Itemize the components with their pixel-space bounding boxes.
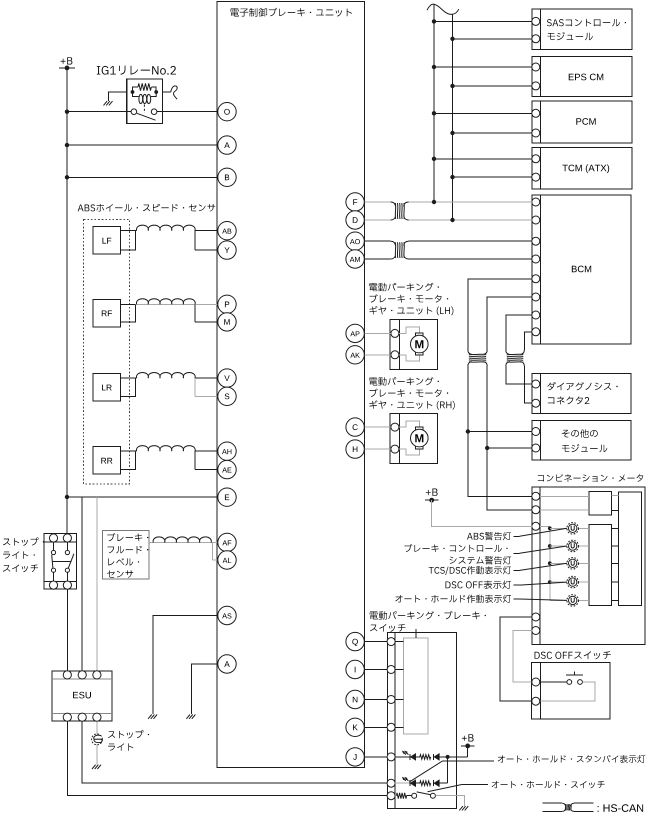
wire RR sensor coil to terminal	[136, 450, 137, 452]
terminal J	[346, 748, 364, 766]
wire stop light switch to ESU	[66, 589, 68, 671]
lamp indicator 2	[567, 540, 579, 552]
node CAN-H tap SAS	[432, 19, 436, 23]
motor gear unit box EPB motor LH	[390, 320, 438, 370]
ground relay coil	[104, 101, 113, 105]
LED auto-hold standby indicator	[403, 751, 416, 760]
motor M EPB motor RH	[411, 427, 429, 449]
wire BCM pin8 down-bus B2	[524, 332, 532, 350]
terminal Q	[346, 632, 364, 650]
terminal AK	[346, 346, 364, 364]
wire +B to meter lamp feed	[432, 500, 532, 526]
resistor R3 auto-hold switch row	[396, 793, 406, 799]
module combination meter box	[532, 487, 645, 645]
ground A	[186, 715, 195, 719]
legend HS-CAN twisted pair symbol	[543, 803, 644, 812]
wire fluid sensor to terminal AF	[149, 542, 218, 544]
terminal AB	[218, 222, 236, 240]
wire J row to switch LED row	[447, 757, 449, 783]
label コンビネーション・メータ	[538, 474, 643, 482]
wire lamp row 3	[550, 562, 619, 564]
label EPB motor RH	[369, 377, 455, 410]
label callout DSC OFF表示灯	[445, 580, 566, 589]
wire relay coil to ground	[109, 92, 127, 101]
wire CAN-H to TCM	[434, 158, 532, 160]
switch push contact DSC OFF	[566, 671, 583, 684]
terminal A	[218, 655, 236, 673]
wire lamp row 1	[550, 527, 619, 529]
terminal N	[346, 690, 364, 708]
wire terminal D CAN-L to BCM	[364, 219, 532, 221]
label EPB motor LH	[369, 283, 453, 316]
twisted pair symbol F/D	[391, 202, 409, 220]
wire resistor to contact	[407, 795, 412, 797]
lamp indicator 5	[567, 595, 579, 607]
node junction dot CAN-H at trunk	[432, 200, 436, 204]
wire branch to ESU pin2	[81, 497, 83, 671]
EPB switch actuator lever	[415, 629, 417, 638]
wire lower return to terminal	[195, 451, 218, 469]
lamp indicator 4	[567, 576, 579, 588]
diode D2 row2	[434, 780, 440, 786]
twisted pair symbol bus B	[506, 350, 525, 366]
terminal AL	[218, 551, 236, 569]
wire ESU to auto-hold switch row2	[82, 721, 387, 783]
label 電動パーキング・ブレーキ・スイッチ	[370, 611, 486, 632]
terminal D	[346, 211, 364, 229]
wire terminal to EPB motor LH pin1	[364, 332, 391, 334]
label オート・ホールド・スイッチ callout	[428, 781, 605, 792]
wire fluid sensor return to terminal AL	[212, 543, 218, 561]
power +B EPB	[461, 734, 475, 748]
wire +B rail to relay contact	[67, 111, 131, 113]
wire +B rail vertical	[66, 68, 68, 534]
wire relay contact to terminal O	[163, 111, 218, 113]
node junction dot other-module L	[485, 446, 489, 450]
wire stop lamp to ground	[96, 744, 98, 764]
wire terminal to EPB motor RH pin1	[364, 426, 391, 428]
lamp indicator 1	[567, 523, 579, 535]
wire LF sensor coil to terminal	[136, 230, 137, 232]
sensor RF wheel-speed sensor box	[93, 299, 136, 327]
module その他のモジュール other modules	[532, 421, 631, 460]
wire +B to terminal A	[67, 144, 218, 146]
wire CAN-H trunk vertical	[433, 4, 435, 202]
module ESU box	[52, 671, 112, 722]
wire terminal to EPB motor RH pin2	[364, 448, 391, 450]
wire meter CAN-L internal	[540, 509, 589, 511]
inductor LF sensor winding	[136, 225, 195, 231]
switch EPB box 電動パーキング・ブレーキ・スイッチ	[387, 633, 456, 809]
wire row2 internal to LED	[395, 782, 410, 784]
wire EPB motor LH pin1 to motor brush	[399, 327, 419, 334]
LED auto-hold switch illumination	[403, 778, 416, 787]
node junction dot lamp bus row 4	[548, 580, 552, 584]
wire RF sensor coil to terminal	[136, 303, 195, 305]
node CAN-L tap PCM	[450, 131, 454, 135]
terminal S	[218, 387, 236, 405]
meter lamp driver block	[589, 524, 612, 605]
wire LED2 to resistor	[416, 782, 420, 784]
terminal F	[346, 193, 364, 211]
wire EPB motor LH pin2 to motor brush	[399, 355, 419, 361]
lamp indicator 3	[567, 558, 579, 570]
wire terminal to EPB motor LH pin2	[364, 354, 391, 356]
node junction dot lamp bus row 2	[548, 544, 552, 548]
wire terminal I to EPB switch	[364, 669, 403, 671]
wire terminal AM to BCM	[364, 258, 532, 260]
wire relay coil feed pigtail to other circuit	[163, 91, 171, 93]
wire ESU to stop lamp	[96, 721, 98, 734]
label callout ブレーキ・コントロール・	[404, 544, 566, 564]
node CAN-L tap SAS	[450, 37, 454, 41]
terminal AO	[346, 232, 364, 250]
terminal M	[218, 313, 236, 331]
wire meter CAN-H internal	[540, 495, 589, 497]
wire tap to other module pin2	[487, 447, 532, 449]
motor gear unit box EPB motor RH	[390, 414, 438, 464]
label callout TCS/DSC作動表示灯	[429, 563, 567, 575]
wire terminal J to EPB switch	[364, 756, 387, 758]
wire diode to +B junction	[439, 756, 468, 758]
wire EPB motor RH pin1 to motor brush	[399, 421, 419, 427]
wire CAN-L to TCM	[453, 176, 532, 178]
wire meter to DSC switch pin1	[513, 631, 532, 683]
wire terminal A to ground	[191, 664, 217, 714]
wire meter to DSC switch pin2	[500, 617, 532, 701]
wire CAN-H to PCM	[434, 112, 532, 114]
wire BCM pin6 down-bus A2	[487, 297, 532, 350]
op-amp U1 electronic brake control unit box 電子制御ブレーキ・ユニット	[217, 2, 364, 768]
wire bus A2 to meter	[487, 366, 532, 510]
wire CAN-H to EPS	[434, 66, 532, 68]
wire CAN-L to EPS	[453, 85, 532, 87]
terminal B	[218, 168, 236, 186]
wire CAN-L to PCM	[453, 132, 532, 134]
resistor R2 switch LED	[420, 781, 431, 786]
power +B meter	[425, 489, 439, 503]
sensor LF wheel-speed sensor box	[93, 227, 136, 255]
wire lower return to terminal	[195, 304, 218, 322]
wire tap to other module pin1	[468, 431, 532, 433]
terminal I	[346, 660, 364, 678]
wire coil to upper terminal	[195, 303, 218, 305]
wire EPB motor RH pin2 to motor brush	[399, 449, 419, 455]
node junction dot lamp bus row 1	[548, 526, 552, 530]
wire lamp row 4	[550, 581, 619, 583]
wire transceiver to main block 2	[611, 510, 618, 512]
wire CAN-H to SAS	[434, 20, 532, 22]
wire terminal AS to ground	[153, 616, 218, 715]
module EPS CM	[532, 57, 632, 97]
twisted pair symbol AO/AM	[391, 241, 409, 259]
wire +B to terminal B	[67, 176, 218, 178]
label ABSホイール・スピード・センサ	[78, 204, 215, 212]
wire terminal F CAN-H to BCM	[364, 201, 532, 203]
label DSC OFFスイッチ	[535, 651, 611, 659]
resistor R1 standby indicator	[420, 755, 431, 760]
wire +B rail to terminal E	[67, 496, 218, 498]
wire diode2 to junction	[439, 782, 448, 784]
label callout オート・ホールド作動表示灯	[395, 595, 567, 603]
sensor brake fluid level ブレーキ・フルード・レベル・センサ	[102, 530, 149, 579]
wire bus B2 to diagnostic connector pin2	[524, 366, 532, 403]
ground auto-hold switch	[459, 806, 468, 810]
wire terminal N to EPB switch	[364, 699, 403, 701]
label callout ABS警告灯	[467, 528, 567, 540]
node junction dot CAN-L at trunk	[450, 218, 454, 222]
wire lamp feed bus internal	[540, 526, 550, 600]
module SAS control SASコントロール・モジュール	[532, 9, 632, 50]
meter CAN transceiver block	[589, 492, 612, 515]
inductor fluid level sensor winding	[153, 537, 211, 543]
sensor RR wheel-speed sensor box	[93, 447, 136, 475]
wire ESU to auto-hold switch row3	[67, 721, 387, 795]
wire CAN-L trunk vertical	[452, 14, 454, 220]
terminal AP	[346, 324, 364, 342]
node junction dot lamp bus row 3	[548, 561, 552, 565]
wire BCM pin5 down-bus A1	[468, 279, 532, 350]
module TCM (ATX)	[532, 147, 632, 188]
wire terminal Q to EPB switch	[364, 641, 403, 643]
node junction dot B row	[65, 175, 69, 179]
label オート・ホールド・スタンバイ表示灯 callout	[409, 755, 645, 782]
wire coil to upper terminal	[195, 450, 218, 452]
twisted pair symbol bus A	[468, 350, 487, 366]
node junction dot other-module H	[466, 429, 470, 433]
wire +B down to J row	[467, 746, 469, 757]
module PCM	[532, 101, 632, 143]
terminal K	[346, 718, 364, 736]
terminal C	[346, 418, 364, 436]
sensor LR wheel-speed sensor box	[93, 374, 136, 402]
ground AS	[148, 715, 157, 719]
wire terminal K to EPB switch	[364, 726, 403, 728]
node junction dot J row	[446, 755, 450, 759]
terminal A	[218, 136, 236, 154]
inductor RR sensor winding	[136, 446, 195, 452]
wire BCM pin7 down-bus B1	[506, 315, 532, 350]
node CAN-L tap EPS	[450, 84, 454, 88]
wire lamp row 2	[550, 545, 619, 547]
node CAN-L tap TCM	[450, 175, 454, 179]
switch SW1 ストップ・ライト・スイッチ	[3, 534, 77, 590]
terminal Y	[218, 241, 236, 259]
wire DSC switch pin1 internal	[541, 681, 567, 683]
wire coil to upper terminal	[195, 230, 218, 232]
terminal AE	[218, 460, 236, 478]
wire lower return to terminal	[195, 231, 218, 250]
ABS sensor group dashed box	[84, 220, 130, 485]
connector ダイアグノシス・コネクタ2	[532, 373, 631, 413]
EPB switch internal block	[403, 638, 428, 734]
relay K1 IG1リレーNo.2	[97, 66, 176, 124]
diode D1 row J	[434, 754, 440, 760]
terminal AF	[218, 533, 236, 551]
wire lower return to terminal	[195, 378, 218, 396]
meter main block	[619, 492, 642, 606]
wire switch to ground	[435, 796, 464, 806]
node CAN-H tap PCM	[432, 111, 436, 115]
wire LED to resistor	[416, 756, 420, 758]
node junction dot A row	[65, 143, 69, 147]
terminal V	[218, 369, 236, 387]
wire CAN-L to SAS	[453, 38, 532, 40]
motor M EPB motor LH	[411, 333, 429, 355]
wire DSC switch return internal	[541, 682, 596, 701]
terminal H	[346, 440, 364, 458]
inductor RF sensor winding	[136, 299, 195, 305]
module BCM	[532, 195, 631, 344]
wire branch to ESU pin3	[96, 497, 98, 671]
node CAN-H tap EPS	[432, 65, 436, 69]
inductor LR sensor winding	[136, 373, 195, 379]
wire bus A1 to meter	[468, 366, 532, 496]
terminal O	[218, 103, 236, 121]
ground stop lamp	[92, 765, 101, 769]
lamp stop light ストップ・ライト	[92, 730, 149, 751]
node junction dot relay row	[65, 110, 69, 114]
wire J row internal	[395, 756, 410, 758]
node CAN-H tap TCM	[432, 157, 436, 161]
terminal E	[218, 488, 236, 506]
wire terminal AO to BCM	[364, 240, 532, 242]
wire CAN continuation squiggle	[427, 4, 459, 14]
terminal AM	[346, 250, 364, 268]
node junction dot E row	[65, 495, 69, 499]
wire coil to upper terminal	[195, 377, 218, 379]
wire transceiver to main block 1	[611, 495, 618, 497]
wire bus B1 to diagnostic connector pin1	[506, 366, 532, 384]
wire lamp row 5	[550, 599, 619, 601]
terminal P	[218, 295, 236, 313]
switch DSC OFF box	[531, 663, 610, 719]
terminal AS	[218, 606, 236, 624]
power +B supply top-left	[59, 57, 75, 70]
wire LR sensor coil to terminal	[136, 377, 137, 379]
switch auto-hold contacts	[412, 792, 436, 798]
terminal AH	[218, 442, 236, 460]
